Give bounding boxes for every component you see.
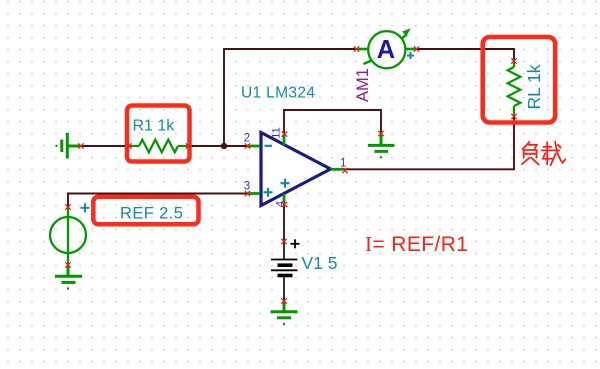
annotation box RL [483,37,556,123]
ammeter plus mark [407,52,414,59]
svg-text:RL 1k: RL 1k [524,64,544,109]
svg-text:R1 1k: R1 1k [133,117,176,134]
pin crosses [65,46,516,303]
op-amp U1 [261,133,331,206]
wire R1 to op-amp pin 2 [189,145,248,147]
svg-text:V1 5: V1 5 [302,253,338,273]
annotation box R1 [127,106,190,162]
wire ammeter to RL [417,49,515,61]
pin 4 stub [283,194,286,205]
svg-text:AM1: AM1 [354,68,372,102]
ground near ammeter [368,134,395,151]
svg-text:REF 2.5: REF 2.5 [120,205,183,223]
svg-text:1: 1 [340,157,346,169]
pin 11 stub [283,134,286,145]
svg-text:I= REF/R1: I= REF/R1 [365,232,468,256]
pin 3 stub [247,192,260,195]
svg-text:3: 3 [244,181,250,193]
wire pin 4 to battery [283,205,285,242]
wire REF to op-amp pin 3 [68,194,248,207]
REF plus mark [81,203,90,212]
op-amp plus mark input [264,188,273,197]
op-amp minus mark [265,145,273,147]
wire RL to op-amp output [345,117,514,170]
node junction [221,143,227,149]
resistor R1 [129,140,190,153]
text load (zai) [542,142,566,166]
ground below REF [55,265,82,282]
ground left rotated [62,133,81,159]
text load (fu) [522,142,539,164]
pin 2 stub [247,145,260,148]
svg-text:11: 11 [271,127,283,138]
svg-text:U1 LM324: U1 LM324 [241,85,315,102]
wire pin 11 to ground [284,110,381,134]
ground below battery [271,301,298,318]
source REF [50,217,86,253]
battery V1 [271,242,298,302]
resistor RL [508,61,521,117]
ammeter AM1 [357,48,369,51]
op-amp plus mark supply [281,179,290,188]
wire junction up [224,49,357,146]
svg-text:2: 2 [244,133,250,145]
svg-text:A: A [377,36,395,64]
wire input to R1 [81,145,129,147]
battery plus mark [291,239,300,248]
pin 1 stub [331,168,346,171]
annotation box REF [93,197,198,224]
